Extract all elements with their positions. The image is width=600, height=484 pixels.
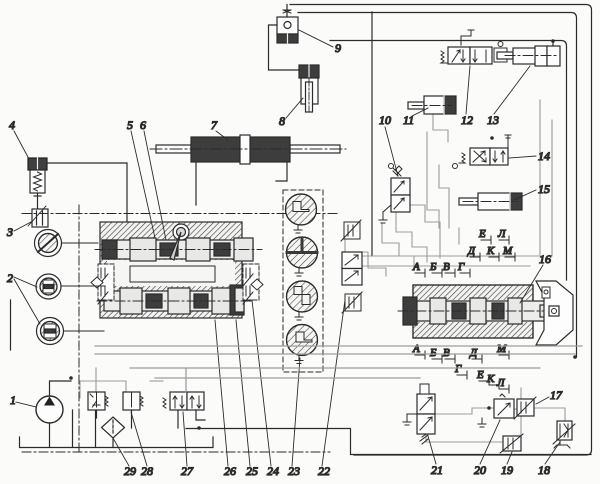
roller on cam xyxy=(549,306,559,316)
throttle box right of block xyxy=(243,264,259,304)
tank hook v21 xyxy=(403,414,411,425)
check diamond left xyxy=(91,277,103,288)
valve 3 xyxy=(28,206,48,227)
upper spool xyxy=(95,238,262,261)
section cylinder d xyxy=(287,325,318,364)
svg-text:4: 4 xyxy=(9,118,15,132)
swivel joint 2a xyxy=(35,230,62,257)
section cylinders group frame xyxy=(283,190,323,372)
svg-text:Л: Л xyxy=(496,377,505,389)
hook above valve14 xyxy=(505,135,511,141)
svg-text:10: 10 xyxy=(379,113,391,127)
wire gray pilot network xyxy=(80,100,565,451)
wire valve27 stems xyxy=(177,410,179,428)
svg-text:В: В xyxy=(443,347,450,359)
svg-text:Д: Д xyxy=(469,347,478,359)
svg-text:5: 5 xyxy=(127,118,133,132)
svg-text:Б: Б xyxy=(429,347,437,359)
svg-text:К: К xyxy=(486,373,495,385)
section cylinder b xyxy=(287,237,318,276)
svg-text:27: 27 xyxy=(181,464,194,478)
svg-text:Б: Б xyxy=(429,261,437,273)
valve 10 xyxy=(389,164,411,213)
valve 22 xyxy=(342,252,362,285)
check diamond right xyxy=(251,279,263,290)
wire left trunk xyxy=(10,300,12,350)
relief valve 29b xyxy=(123,392,143,410)
valve 21 xyxy=(417,384,435,444)
wire top junction xyxy=(551,39,555,43)
swivel joint 2b xyxy=(36,274,61,299)
svg-text:Е: Е xyxy=(476,369,484,381)
svg-text:Е: Е xyxy=(478,228,486,240)
svg-text:6: 6 xyxy=(140,118,146,132)
valve 12 xyxy=(441,47,492,64)
junction dots xyxy=(197,426,201,430)
cylinder 13 xyxy=(497,46,560,66)
relief valve 28 xyxy=(88,392,108,410)
svg-text:17: 17 xyxy=(550,388,563,402)
throttle 23 xyxy=(342,292,362,313)
svg-text:20: 20 xyxy=(474,463,486,477)
svg-text:12: 12 xyxy=(461,113,473,127)
svg-text:Д: Д xyxy=(467,245,476,257)
svg-text:К: К xyxy=(486,245,495,257)
throttle 19 xyxy=(500,434,523,453)
wire second frame xyxy=(298,13,577,358)
cylinder 11 xyxy=(408,96,456,114)
relief valve 4 xyxy=(28,158,47,208)
wire return line bottom xyxy=(186,429,591,455)
cam plate 16 xyxy=(536,281,573,345)
lower spool xyxy=(97,285,252,315)
throttle 24 xyxy=(341,220,361,241)
wire third frame xyxy=(330,41,567,281)
cylinder 7 xyxy=(150,135,346,164)
wire main frame right xyxy=(290,5,592,456)
wire cylinder7 ports xyxy=(195,162,197,205)
wire 28/29 drains xyxy=(96,410,98,418)
svg-text:25: 25 xyxy=(246,464,258,478)
valve 9 xyxy=(277,10,298,43)
cylinder 8 xyxy=(299,65,319,112)
wire pump outlet xyxy=(50,381,72,396)
svg-text:16: 16 xyxy=(539,252,551,266)
svg-text:14: 14 xyxy=(538,149,550,163)
check throttle 18 xyxy=(553,421,575,448)
throttle 17 xyxy=(514,397,536,419)
svg-text:23: 23 xyxy=(288,464,300,478)
valve 20 xyxy=(478,394,514,427)
svg-text:7: 7 xyxy=(211,118,218,132)
svg-text:24: 24 xyxy=(267,464,279,478)
filter 29 xyxy=(102,417,125,438)
svg-text:22: 22 xyxy=(318,464,330,478)
svg-text:Л: Л xyxy=(497,228,506,240)
wire valve9 top xyxy=(286,5,288,18)
section cylinder c xyxy=(287,281,318,320)
svg-text:Г: Г xyxy=(454,363,462,375)
valve 16 block body xyxy=(413,285,533,338)
wire valve9 left loop xyxy=(269,25,300,70)
svg-text:11: 11 xyxy=(403,113,414,127)
wire drops to tank xyxy=(72,410,74,447)
valve 14 xyxy=(453,148,509,169)
valve 27 xyxy=(163,392,204,410)
throttle box left of block xyxy=(98,264,114,304)
swivel joint 2c xyxy=(37,318,64,345)
svg-text:А: А xyxy=(412,261,420,273)
valve 16 spool xyxy=(398,297,560,325)
wire pump suction xyxy=(49,423,51,447)
wire vertical x372 xyxy=(371,12,373,255)
svg-text:29: 29 xyxy=(124,464,136,478)
tank hook valve10 xyxy=(379,212,387,223)
svg-text:А: А xyxy=(412,343,420,355)
pump 1 xyxy=(36,396,63,423)
wire block to circles xyxy=(62,242,98,244)
wire under block xyxy=(95,345,582,347)
svg-text:М: М xyxy=(496,343,507,355)
control valve block body xyxy=(100,222,242,318)
svg-text:19: 19 xyxy=(501,463,513,477)
svg-text:1: 1 xyxy=(10,393,16,407)
svg-text:2: 2 xyxy=(7,271,13,285)
svg-text:В: В xyxy=(443,261,450,273)
svg-text:13: 13 xyxy=(487,113,499,127)
svg-text:3: 3 xyxy=(6,225,13,239)
svg-text:21: 21 xyxy=(431,463,443,477)
relief 12b xyxy=(494,42,507,63)
wire dash-dot boundary left xyxy=(22,205,340,452)
wire from valve 4 xyxy=(47,163,127,222)
tank xyxy=(20,437,214,448)
section cylinder a xyxy=(286,194,317,233)
svg-text:М: М xyxy=(502,245,513,257)
small roller top xyxy=(542,287,550,298)
svg-text:15: 15 xyxy=(538,182,550,196)
svg-text:8: 8 xyxy=(279,114,285,128)
handle lever xyxy=(170,224,189,260)
svg-text:18: 18 xyxy=(538,463,550,477)
svg-text:Г: Г xyxy=(457,261,465,273)
cylinder 15 xyxy=(459,193,522,210)
svg-text:9: 9 xyxy=(335,41,341,55)
port hook above valve 12 xyxy=(461,30,474,45)
svg-text:26: 26 xyxy=(224,464,236,478)
